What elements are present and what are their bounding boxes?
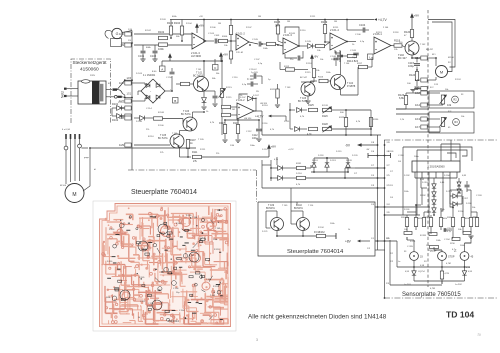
wire input lower [134,44,192,46]
svg-text:7604 014: 7604 014 [168,319,179,323]
PCB component overlay marks (black) [209,315,213,319]
svg-text:R126: R126 [322,115,328,118]
resistor R123 6,8k [404,96,407,105]
potentiometer R3 10k [441,118,444,127]
resistor R118 [394,44,402,47]
resistor R109 [323,25,326,34]
transistor T101 BC547A [194,77,209,92]
svg-text:+9V: +9V [199,16,203,18]
wire [335,51,337,55]
svg-text:P-SB78: P-SB78 [347,85,356,88]
terminal 1/14 [421,103,427,107]
svg-text:T 110: T 110 [308,205,314,207]
mains adapter boundary Steckernetzgeraet (chain line) [71,59,111,123]
wire [187,149,189,158]
wire [290,211,292,224]
svg-text:R 126: R 126 [322,105,329,107]
wire mid bus [262,134,381,136]
svg-text:+4,7V: +4,7V [288,149,294,151]
wire sensor loop 4 [447,153,456,158]
svg-text:56k: 56k [176,36,180,38]
svg-text:R 110: R 110 [300,30,306,32]
svg-text:STOP: STOP [448,255,455,258]
wire [332,109,347,111]
PCB legend transistor circles [158,224,168,234]
wire [296,202,298,206]
svg-text:1/15: 1/15 [434,84,439,86]
box label L [368,54,374,60]
svg-text:0,85: 0,85 [462,175,467,177]
svg-text:R 111: R 111 [200,149,206,151]
wire [310,165,312,168]
transformer TR1 tab [82,80,90,83]
svg-text:120: 120 [399,42,403,44]
wire T101 base [190,83,194,85]
svg-text:D 119: D 119 [330,160,336,162]
svg-text:1/7: 1/7 [354,173,358,175]
svg-text:Alle nicht gekennzeichneten Di: Alle nicht gekennzeichneten Dioden sind … [248,314,387,321]
wire secondary top [106,89,112,91]
svg-text:R111: R111 [192,151,198,154]
svg-text:C101: C101 [138,54,145,58]
svg-text:10k: 10k [461,116,465,118]
svg-text:2 101-2: 2 101-2 [236,99,245,102]
svg-text:D 201: D 201 [422,182,429,184]
sensor pad 45 [460,252,469,261]
svg-text:R3: R3 [454,120,458,124]
wire [450,155,452,161]
wire +4,7V top rail [170,19,374,21]
svg-text:C 203: C 203 [476,195,482,197]
connector filled lower [118,96,122,98]
svg-text:LM 324: LM 324 [244,118,252,120]
wire [328,80,333,82]
svg-text:La 201: La 201 [404,284,411,286]
wire sensor loop 2 [417,150,467,156]
wire tacho loop [105,30,112,38]
svg-text:C 112: C 112 [246,131,252,133]
capacitor C107 [170,72,175,74]
svg-text:1M: 1M [287,21,290,23]
diode D209 [457,182,461,186]
wire [117,80,125,89]
wire [413,260,415,267]
wire [299,128,307,130]
svg-text:R131: R131 [296,163,302,165]
wire bridge - out [138,90,141,92]
resistor R114 [222,105,231,108]
wire [430,227,432,235]
svg-text:R 108: R 108 [158,112,165,114]
svg-text:C 104: C 104 [173,288,179,290]
wire [406,227,408,233]
wire sensor link row [407,211,416,213]
board boundary chain line left [128,169,256,171]
svg-text:+4,7V: +4,7V [255,114,264,118]
transformer TR1 core bar [92,81,100,104]
svg-text:27k: 27k [216,153,220,155]
svg-text:2/3: 2/3 [386,283,390,285]
svg-text:10k: 10k [447,103,452,107]
resistor R106 [219,39,228,42]
wire [67,184,69,187]
capacitor C109 10u [353,53,359,55]
svg-text:R 103: R 103 [160,19,166,21]
svg-text:0,1µ: 0,1µ [258,63,263,65]
wire [307,96,309,100]
wire [224,120,226,125]
svg-text:R105: R105 [274,20,281,24]
svg-text:D 207: D 207 [462,198,469,200]
resistor R212 [430,246,439,249]
svg-text:BC547A: BC547A [294,207,303,210]
svg-text:22n: 22n [290,59,294,61]
svg-text:BD 437: BD 437 [426,49,434,51]
resistor R131 4,7k [297,166,306,169]
svg-text:R130: R130 [373,119,379,121]
terminal 1/18 [421,91,427,95]
speed control box R3 [429,112,474,133]
wire bus B [384,140,386,298]
wire [402,147,404,215]
wire [290,188,292,202]
wire [375,206,430,208]
svg-text:100k: 100k [465,218,469,220]
svg-text:+9V: +9V [199,24,206,28]
shielded link [368,153,391,158]
resistor R215 [475,218,478,227]
svg-text:-9V: -9V [366,149,370,151]
svg-text:45: 45 [448,127,451,129]
svg-text:4,7M: 4,7M [445,273,450,275]
wire sensor loop 3 [441,144,460,152]
svg-text:R 198/232: R 198/232 [314,232,325,234]
sensor pad 33 (start) [410,252,419,261]
resistor R204 [439,218,442,227]
svg-text:47: 47 [404,35,407,37]
svg-text:+: + [150,91,152,93]
PCB copper traces [159,271,182,273]
resistor R100 [154,117,163,120]
wire IC pin drop 4 [421,188,423,205]
resistor R210 [452,238,460,241]
svg-text:+8V: +8V [271,145,278,149]
wire [402,46,405,48]
svg-text:33: 33 [461,94,464,96]
op-amp U104 (4/4 LM3900) [330,33,347,50]
resistor R124 100 [415,72,418,81]
svg-text:6,8k: 6,8k [399,96,405,100]
svg-text:R 105: R 105 [176,223,182,225]
resistor R205 [451,218,454,227]
wire [282,167,296,169]
svg-text:C 205: C 205 [407,246,414,248]
wire driver collector [411,31,413,41]
wire [345,177,385,179]
svg-text:100k: 100k [263,48,269,50]
svg-text:R 209: R 209 [420,235,427,237]
svg-text:1/7: 1/7 [390,171,394,173]
svg-text:100n: 100n [250,145,256,147]
wire [340,89,342,95]
wire [389,240,391,285]
wire [370,127,372,136]
wire [458,178,460,182]
wire [324,20,326,25]
resistor R119 120 [236,125,239,134]
transistor T106 BC547A [183,117,197,131]
trimmer R126 [323,108,332,111]
svg-text:1/5: 1/5 [390,185,394,187]
svg-text:M 1: M 1 [432,54,436,56]
resistor R115 10k [312,69,315,78]
wire [413,240,415,252]
svg-text:R112: R112 [284,66,290,68]
svg-text:TD 104: TD 104 [446,310,474,320]
resistor R104 [180,26,183,35]
wire [313,78,315,83]
resistor R209 [429,233,437,236]
resistor R113 [181,82,190,85]
svg-text:R 102: R 102 [145,30,152,32]
wire input upper [134,33,192,35]
resistor R108 [267,42,276,45]
wire T106 collector [192,112,194,118]
wire [134,117,140,119]
wire [450,195,453,197]
svg-text:C 107: C 107 [254,59,260,61]
svg-text:R 120: R 120 [214,249,220,251]
mains cable stubs [65,134,67,139]
wire [423,212,425,218]
wire [434,249,442,251]
terminal 1/12 [421,56,427,60]
wire [449,190,451,204]
svg-text:4,7µ: 4,7µ [447,231,452,233]
wire speed bus 3 [396,108,429,110]
svg-text:1/7: 1/7 [371,165,375,167]
svg-text:BC 547B: BC 547B [298,100,308,103]
transistor T109 BC547A [271,218,284,231]
svg-text:R117: R117 [219,122,225,125]
svg-text:1/8: 1/8 [371,142,375,144]
svg-text:33: 33 [424,261,427,263]
resistor R132 4,7k [297,176,306,179]
svg-text:M 100: M 100 [60,185,67,187]
label +4,7V mid [268,115,271,118]
svg-text:T 102: T 102 [420,44,426,46]
op-amp U106 [237,103,254,119]
svg-text:R121: R121 [270,89,276,91]
label -9V [357,143,362,147]
svg-text:100k: 100k [330,223,335,225]
svg-text:STOP: STOP [430,251,436,253]
svg-text:R 114: R 114 [306,63,312,65]
svg-text:R2: R2 [453,98,457,102]
terminal 1/13 [421,117,427,121]
separator dashed line (chassis) [427,10,429,287]
potentiometer R2 10k [441,95,444,104]
svg-text:R109: R109 [321,20,328,24]
svg-text:0,1µ: 0,1µ [360,41,365,43]
svg-text:R 115: R 115 [305,72,311,74]
svg-text:56k: 56k [212,78,216,80]
resistor R127 4,7k [309,127,318,130]
svg-text:33: 33 [404,251,407,253]
svg-text:D 121: D 121 [262,231,268,233]
wire [125,79,132,81]
svg-text:R 109: R 109 [289,33,296,35]
svg-text:10: 10 [477,332,482,337]
trimmer R128 500 [323,127,332,130]
svg-text:1/9: 1/9 [371,185,375,187]
wire [111,108,113,116]
svg-text:4,7k: 4,7k [210,122,215,124]
svg-text:Sensorplatte 7605015: Sensorplatte 7605015 [402,292,461,298]
wire [470,227,472,234]
wire [396,241,398,267]
diode D205 [432,200,436,204]
resistor R213 [440,271,443,279]
svg-text:R106: R106 [222,36,228,38]
resistor R112b 10k [286,68,295,71]
wire [261,160,263,188]
capacitor C109 [213,96,218,98]
svg-text:R 105: R 105 [186,215,192,217]
svg-text:C 201: C 201 [388,151,394,153]
PCB photo frame [93,201,236,331]
op-amp U101 (1/4 LM3900) [192,33,206,49]
wire [262,164,271,166]
terminal 1/28 [125,116,131,120]
wire [335,50,340,53]
svg-text:1µ 16V: 1µ 16V [251,72,259,74]
resistor R111 27k [193,155,202,158]
svg-text:T 104: T 104 [344,63,350,65]
svg-text:33: 33 [420,255,423,258]
svg-text:500: 500 [340,112,344,114]
wire IC pin drop 2 [441,178,443,211]
wire [406,237,408,240]
svg-text:D 110: D 110 [107,261,113,263]
wire [452,227,454,238]
ground [222,140,227,142]
supply arrow +9V [196,24,199,33]
wire long lower rail [180,156,192,158]
svg-text:D 208: D 208 [466,203,472,205]
wire [476,212,478,218]
box label A [160,66,166,72]
diode D108 [140,116,145,121]
svg-text:10k: 10k [224,45,228,47]
svg-text:D 204: D 204 [444,175,450,177]
svg-text:T 103: T 103 [215,228,221,230]
mains prong lower [64,95,67,97]
wire [237,134,239,140]
svg-text:4 x 0,34: 4 x 0,34 [62,129,71,131]
svg-text:1M: 1M [218,23,221,25]
transistor T103 BC547B [301,82,315,96]
svg-text:10k: 10k [404,229,408,231]
wire left board-edge bus [131,31,133,171]
sensor IC U201 SAS560 [412,161,460,172]
svg-text:1k: 1k [348,229,351,231]
resistor R206 [461,218,464,227]
wire [459,152,461,161]
capacitor C204 [444,228,446,232]
svg-text:C 201: C 201 [398,155,405,157]
wire [112,107,117,109]
svg-text:1k: 1k [138,317,140,319]
diode D115 [278,166,283,171]
svg-text:27k: 27k [193,160,198,163]
wire [122,94,124,98]
capacitor C110 [251,82,253,87]
bridge rectifier D103 [141,79,165,103]
svg-text:1/21: 1/21 [127,94,132,96]
supply arrow +8V small [169,54,172,61]
svg-text:100k: 100k [213,239,217,241]
diode D120 [346,163,350,167]
svg-text:C103: C103 [214,35,220,37]
wire [414,280,465,282]
diode D105 [308,44,313,49]
diode D208 [453,202,457,206]
svg-text:1/11: 1/11 [415,78,420,82]
wire [345,110,347,118]
knob circle R3 [453,119,460,126]
svg-text:4150060: 4150060 [80,67,99,73]
svg-text:R 116: R 116 [262,105,268,107]
svg-text:M 100: M 100 [448,57,455,59]
junction dots sensor bus [384,297,386,299]
resistor R105 [276,25,279,34]
svg-text:4,7k: 4,7k [296,184,301,186]
svg-text:56k: 56k [216,73,220,75]
svg-text:4 x 1N4001: 4 x 1N4001 [143,74,156,77]
wire [239,94,248,99]
terminal 1/11 [421,78,427,82]
svg-text:D 103: D 103 [136,73,143,75]
wire [375,240,397,242]
svg-text:100k: 100k [436,240,442,242]
motor M [436,66,448,78]
svg-text:T 103: T 103 [285,87,291,89]
wire [416,150,418,215]
wire mid rail [196,60,222,62]
svg-text:R117: R117 [357,63,363,65]
svg-text:D 111: D 111 [284,121,290,123]
resistor R129 4,7k [344,118,347,127]
generator frame [111,39,122,47]
wire [441,250,443,252]
wire mains upper [67,88,78,90]
svg-text:1/2 LM: 1/2 LM [236,52,243,54]
wire motor return [427,79,436,81]
wire [163,118,184,120]
svg-text:0,98: 0,98 [466,267,471,269]
svg-text:R 2: R 2 [430,87,434,89]
svg-text:D 118: D 118 [318,155,324,157]
capacitor C111 feedback U102 [285,54,297,58]
svg-text:2/2: 2/2 [390,253,394,255]
op-amp U105 comparator [374,37,391,54]
svg-text:220V: 220V [90,75,96,77]
svg-text:T 103: T 103 [206,279,212,281]
svg-text:1/6: 1/6 [371,151,375,153]
svg-text:2 106: 2 106 [383,27,389,29]
svg-text:BC 547A: BC 547A [158,137,168,140]
